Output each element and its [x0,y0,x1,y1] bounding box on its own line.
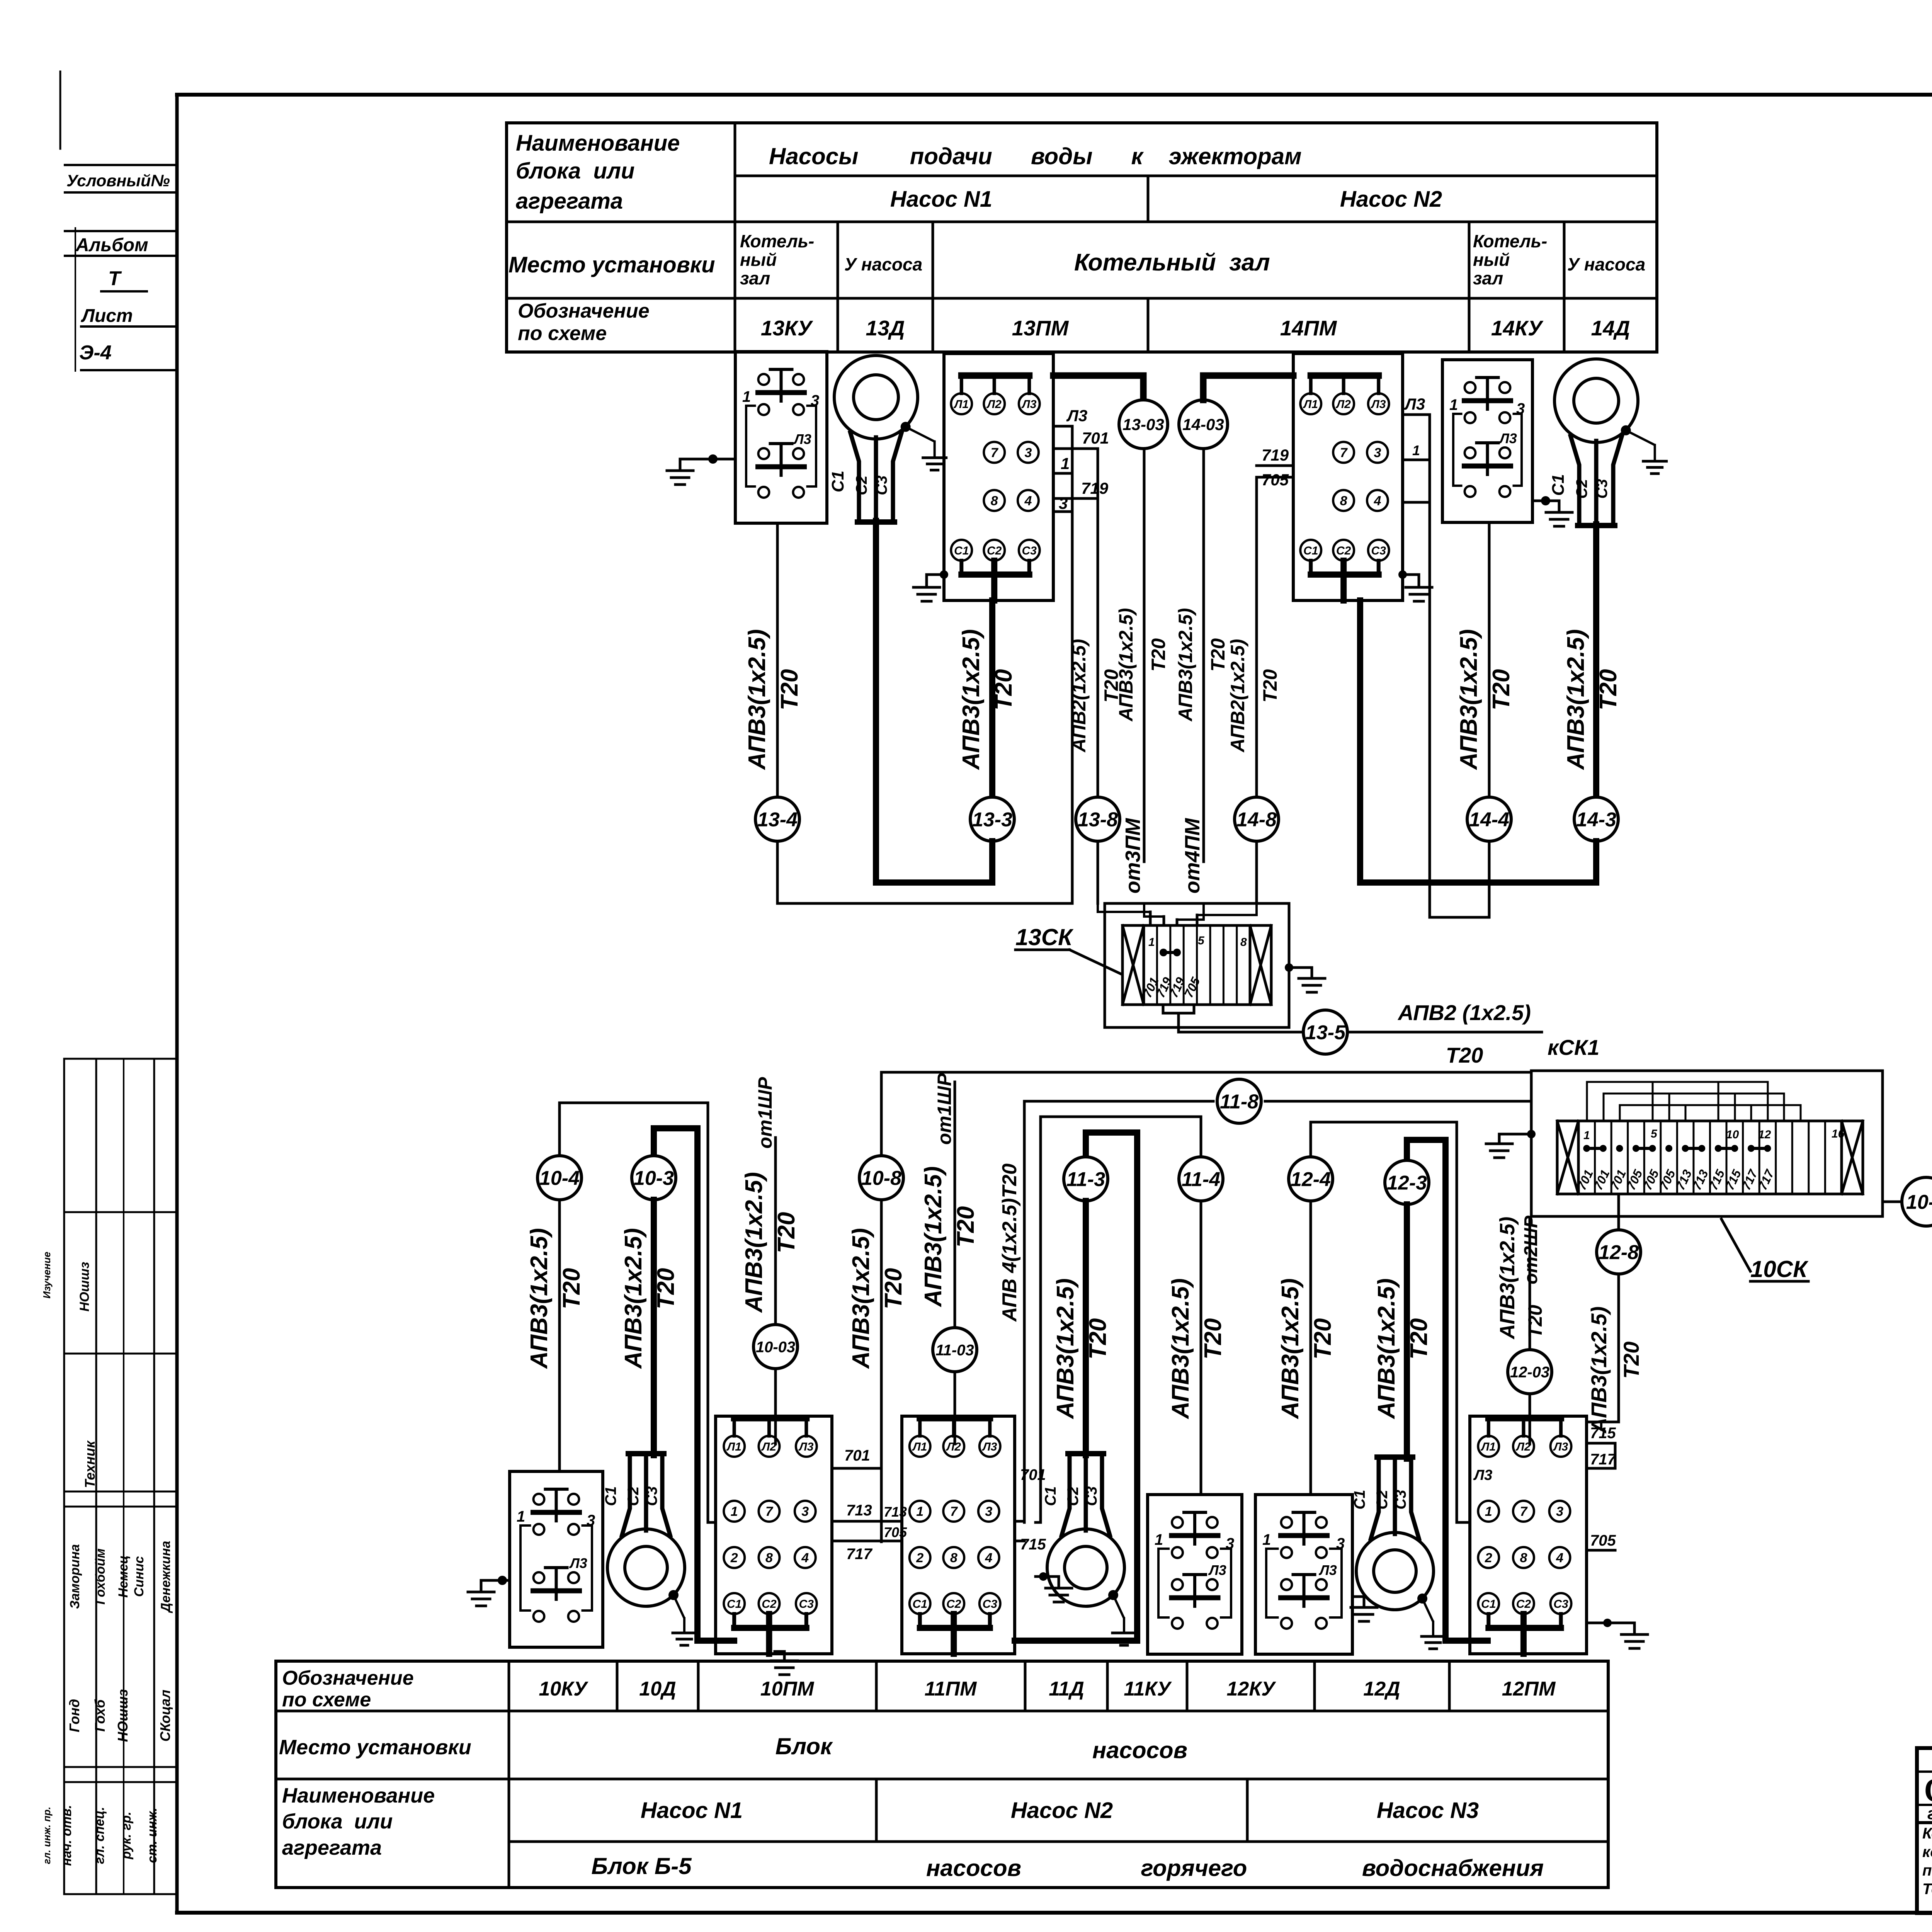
svg-text:1: 1 [1412,442,1420,458]
svg-text:С1: С1 [954,544,969,557]
svg-text:АПВ 4(1х2.5)Т20: АПВ 4(1х2.5)Т20 [998,1163,1021,1322]
svg-text:Л3: Л3 [1208,1562,1226,1578]
svg-text:АПВ2(1х2.5): АПВ2(1х2.5) [1068,639,1090,753]
svg-text:10-4: 10-4 [539,1167,580,1190]
svg-text:Л1: Л1 [1303,398,1318,411]
svg-text:701: 701 [844,1447,870,1464]
svg-text:АПВ3(1х2.5): АПВ3(1х2.5) [958,629,985,770]
svg-text:АПВ3(1х2.5): АПВ3(1х2.5) [848,1228,874,1369]
svg-text:АПВ2(1х2.5): АПВ2(1х2.5) [1227,639,1248,753]
svg-text:С3: С3 [643,1486,660,1506]
svg-text:насосов: насосов [926,1855,1021,1881]
svg-text:11Д: 11Д [1049,1678,1084,1700]
svg-text:3: 3 [801,1504,809,1519]
svg-text:Обозначение: Обозначение [282,1667,414,1689]
svg-text:Наименование: Наименование [516,131,680,156]
svg-text:САНТЕХПРОЕКТ: САНТЕХПРОЕКТ [1924,1772,1932,1809]
svg-text:13-03: 13-03 [1122,415,1164,434]
svg-text:С1: С1 [1549,474,1568,496]
svg-text:Т20: Т20 [558,1268,585,1310]
svg-text:715: 715 [1590,1425,1616,1442]
svg-text:Насос N2: Насос N2 [1011,1798,1113,1823]
svg-text:С1: С1 [602,1486,619,1506]
svg-text:Л3: Л3 [1066,406,1087,425]
svg-text:11КУ: 11КУ [1124,1678,1172,1700]
svg-text:11-4: 11-4 [1182,1168,1220,1191]
svg-text:ст. инж.: ст. инж. [145,1808,160,1863]
svg-text:10: 10 [1726,1128,1739,1141]
svg-text:Т: Т [108,267,122,290]
svg-text:С3: С3 [1392,1490,1409,1509]
svg-text:Немец: Немец [116,1555,131,1598]
svg-text:АПВ3(1х2.5): АПВ3(1х2.5) [1587,1306,1611,1434]
svg-text:С3: С3 [1553,1598,1568,1611]
svg-text:4: 4 [985,1551,992,1565]
svg-text:горячего: горячего [1141,1855,1247,1881]
svg-text:Место установки: Место установки [279,1736,471,1759]
svg-text:С3: С3 [1371,544,1386,557]
svg-text:3: 3 [1024,446,1032,460]
svg-text:Л3: Л3 [1371,398,1386,411]
svg-text:Котельная с 4 водогрейными: Котельная с 4 водогрейными [1922,1825,1932,1842]
svg-text:по схеме: по схеме [282,1689,371,1711]
svg-text:АПВ3(1х2.5): АПВ3(1х2.5) [1115,608,1137,722]
svg-text:Л1: Л1 [954,398,969,411]
svg-text:705: 705 [884,1524,907,1540]
svg-text:С3: С3 [983,1598,998,1611]
svg-text:13-4: 13-4 [757,809,798,831]
svg-text:5: 5 [1198,934,1205,947]
svg-text:Альбом: Альбом [75,235,148,255]
svg-text:Насосы подачи воды: Насосы подачи воды к эжекторам [769,143,1302,169]
svg-text:14-4: 14-4 [1469,809,1509,831]
svg-text:1: 1 [1061,454,1070,473]
svg-text:С2: С2 [762,1598,777,1611]
svg-text:Л3: Л3 [1498,430,1517,446]
svg-text:7: 7 [991,446,999,460]
svg-text:Насос N3: Насос N3 [1377,1798,1479,1823]
svg-text:от4ПМ: от4ПМ [1181,818,1204,894]
svg-text:701: 701 [1082,429,1109,447]
svg-text:13ПМ: 13ПМ [1012,316,1069,340]
svg-text:Блок Б-5: Блок Б-5 [591,1853,692,1879]
svg-text:гл. инж. пр.: гл. инж. пр. [41,1807,53,1864]
svg-text:705: 705 [1590,1532,1616,1549]
svg-text:НОшшз: НОшшз [77,1262,92,1312]
svg-text:С2: С2 [1516,1598,1531,1611]
svg-text:С2: С2 [1065,1486,1082,1506]
svg-text:Лист: Лист [81,306,133,326]
svg-text:С1: С1 [727,1598,742,1611]
svg-text:12-3: 12-3 [1387,1172,1427,1194]
svg-text:1: 1 [1155,1531,1163,1548]
svg-text:от3ПМ: от3ПМ [1121,818,1145,894]
svg-text:Условный№: Условный№ [66,172,170,190]
svg-text:13КУ: 13КУ [761,316,813,340]
svg-text:Заморина: Заморина [68,1544,82,1609]
svg-text:блока или: блока или [516,158,634,184]
svg-text:Т20: Т20 [776,669,803,711]
svg-text:Л3: Л3 [1553,1440,1568,1453]
svg-text:713: 713 [884,1504,907,1520]
svg-text:1: 1 [1148,936,1155,949]
svg-text:Гохбойм: Гохбойм [93,1548,108,1604]
svg-text:по схеме: по схеме [518,322,607,345]
svg-text:Э-4: Э-4 [79,342,112,364]
svg-text:5: 5 [1651,1128,1658,1140]
svg-text:Т20: Т20 [1619,1342,1643,1379]
svg-text:11-03: 11-03 [935,1342,974,1359]
svg-text:Котельный зал: Котельный зал [1074,249,1270,276]
svg-text:СКоцал: СКоцал [157,1690,173,1742]
svg-text:С3: С3 [1083,1486,1100,1506]
svg-text:Денежкина: Денежкина [158,1541,173,1614]
svg-text:Л3: Л3 [1404,395,1425,413]
svg-text:АПВ3(1х2.5): АПВ3(1х2.5) [526,1228,553,1369]
svg-text:Топливо-печное бытовое.: Топливо-печное бытовое. [1922,1881,1932,1898]
svg-text:719: 719 [1262,446,1289,464]
svg-text:С1: С1 [1481,1598,1496,1611]
svg-text:13-5: 13-5 [1305,1022,1346,1044]
svg-text:С3: С3 [799,1598,814,1611]
svg-text:10СК: 10СК [1750,1256,1809,1282]
svg-text:Т20: Т20 [952,1206,979,1248]
svg-text:Насос N1: Насос N1 [890,187,992,212]
svg-text:1: 1 [1485,1504,1492,1519]
svg-text:10-5: 10-5 [1906,1191,1932,1214]
svg-text:1: 1 [517,1508,525,1525]
svg-text:Котель-: Котель- [740,231,814,251]
svg-text:16: 16 [1832,1128,1845,1140]
svg-text:14-03: 14-03 [1182,415,1224,434]
svg-text:Л3: Л3 [1473,1467,1492,1483]
svg-text:Т20: Т20 [1207,638,1229,672]
svg-text:Т20: Т20 [1446,1043,1483,1067]
svg-text:8: 8 [950,1551,957,1565]
svg-text:Обозначение: Обозначение [518,300,650,322]
svg-text:13-3: 13-3 [972,809,1012,831]
svg-text:12ПМ: 12ПМ [1502,1678,1556,1700]
svg-text:Л2: Л2 [986,398,1002,411]
svg-text:Техник: Техник [82,1440,98,1488]
svg-text:10Д: 10Д [639,1678,676,1700]
svg-text:1: 1 [742,388,751,405]
svg-text:Л3: Л3 [1021,398,1037,411]
svg-text:С1: С1 [1042,1486,1059,1506]
svg-text:Т20: Т20 [1310,1318,1336,1360]
svg-text:1: 1 [916,1504,923,1519]
svg-text:3: 3 [811,392,819,409]
svg-text:13-8: 13-8 [1078,809,1118,831]
svg-text:С3: С3 [873,475,890,495]
svg-text:3: 3 [985,1504,992,1519]
svg-text:4: 4 [1373,493,1381,508]
svg-text:12Д: 12Д [1363,1678,1400,1700]
svg-text:АПВ3(1х2.5): АПВ3(1х2.5) [741,1172,767,1313]
svg-text:АПВ3(1х2.5): АПВ3(1х2.5) [1175,608,1196,722]
svg-text:ный: ный [740,250,777,270]
svg-text:С1: С1 [828,471,847,492]
svg-text:АПВ3(1х2.5): АПВ3(1х2.5) [1456,629,1482,770]
svg-text:АПВ3(1х2.5): АПВ3(1х2.5) [1277,1278,1304,1420]
svg-text:8: 8 [765,1551,773,1565]
svg-text:Л3: Л3 [798,1440,814,1453]
svg-text:14Д: 14Д [1591,316,1630,340]
svg-text:4: 4 [1556,1551,1563,1565]
svg-text:717: 717 [1590,1451,1616,1468]
svg-text:С2: С2 [1336,544,1351,557]
svg-text:Т20: Т20 [1259,669,1281,702]
svg-text:поверхностью нагрева по 41.8м²: поверхностью нагрева по 41.8м² [1922,1862,1932,1879]
svg-text:АПВ3(1х2.5): АПВ3(1х2.5) [1496,1217,1519,1340]
svg-text:АПВ3(1х2.5): АПВ3(1х2.5) [1052,1278,1079,1420]
svg-text:Насос N2: Насос N2 [1340,187,1442,212]
svg-text:Т20: Т20 [1488,669,1515,711]
svg-text:зал: зал [740,268,770,288]
svg-text:3: 3 [1374,446,1381,460]
svg-text:713: 713 [846,1502,872,1519]
svg-text:1: 1 [1449,396,1458,413]
svg-text:Место установки: Место установки [509,252,715,277]
svg-text:Л3: Л3 [1318,1562,1337,1578]
svg-text:АПВ3(1х2.5): АПВ3(1х2.5) [620,1228,647,1369]
svg-text:ный: ный [1473,250,1510,270]
svg-text:Л3: Л3 [793,431,811,447]
svg-text:С2: С2 [1374,1490,1391,1509]
svg-text:Т20: Т20 [1406,1318,1432,1360]
svg-text:715: 715 [1020,1536,1046,1553]
svg-text:С2: С2 [946,1598,961,1611]
svg-text:Л2: Л2 [946,1440,961,1453]
svg-text:1: 1 [731,1504,738,1519]
svg-text:3: 3 [1516,400,1525,417]
svg-text:Т20: Т20 [1200,1318,1226,1360]
svg-text:7: 7 [1340,446,1348,460]
svg-text:Т20: Т20 [990,669,1017,711]
svg-text:Т20: Т20 [1085,1318,1111,1360]
svg-text:С3: С3 [1022,544,1037,557]
svg-text:8: 8 [1240,936,1247,949]
svg-text:АПВ3(1х2.5): АПВ3(1х2.5) [920,1166,947,1308]
svg-text:Л1: Л1 [1481,1440,1496,1453]
svg-text:11ПМ: 11ПМ [925,1678,977,1700]
svg-text:г. Москва: г. Москва [1927,1804,1932,1823]
svg-text:1: 1 [1262,1531,1271,1548]
svg-text:Т20: Т20 [1524,1305,1546,1338]
svg-text:10-03: 10-03 [756,1338,795,1355]
svg-text:Блок: Блок [776,1733,833,1759]
svg-text:717: 717 [846,1546,872,1563]
svg-text:зал: зал [1473,268,1503,288]
svg-text:рук. гр.: рук. гр. [119,1811,134,1859]
svg-text:Л1: Л1 [912,1440,927,1453]
svg-text:Т20: Т20 [653,1268,679,1310]
svg-text:агрегата: агрегата [516,189,623,214]
svg-text:Т20: Т20 [1595,669,1622,711]
svg-text:от1ШР: от1ШР [934,1073,955,1145]
svg-text:Л3: Л3 [569,1555,587,1571]
svg-text:агрегата: агрегата [282,1836,382,1859]
svg-text:4: 4 [801,1551,809,1565]
svg-text:У насоса: У насоса [844,254,922,274]
svg-text:10ПМ: 10ПМ [760,1678,815,1700]
svg-text:2: 2 [916,1551,923,1565]
svg-text:7: 7 [765,1504,774,1519]
svg-text:водоснабжения: водоснабжения [1362,1855,1544,1881]
svg-text:котлами „Универсал-6м": котлами „Универсал-6м" [1922,1844,1932,1861]
svg-text:10-3: 10-3 [634,1167,674,1190]
svg-text:блока или: блока или [282,1810,393,1833]
svg-text:Т20: Т20 [1148,638,1169,672]
svg-text:АПВ3(1х2.5): АПВ3(1х2.5) [1563,629,1589,770]
svg-text:701: 701 [1020,1466,1046,1483]
svg-text:705: 705 [1262,471,1289,489]
svg-text:8: 8 [1520,1551,1527,1565]
svg-text:3: 3 [1226,1535,1234,1552]
svg-text:С1: С1 [1351,1490,1368,1509]
svg-text:3: 3 [1059,494,1068,512]
svg-text:С3: С3 [1594,479,1611,498]
svg-text:10-8: 10-8 [861,1167,901,1190]
svg-text:14КУ: 14КУ [1491,316,1544,340]
svg-text:гл. спец.: гл. спец. [92,1807,107,1864]
svg-text:Насос N1: Насос N1 [641,1798,743,1823]
svg-text:У насоса: У насоса [1567,254,1645,274]
svg-text:Гохб: Гохб [92,1699,108,1732]
svg-text:НОшшз: НОшшз [115,1689,131,1742]
svg-text:2: 2 [1485,1551,1492,1565]
svg-text:Т20: Т20 [880,1268,907,1310]
svg-text:Котель-: Котель- [1473,231,1547,251]
svg-text:Л1: Л1 [726,1440,742,1453]
svg-text:С1: С1 [1303,544,1318,557]
svg-text:13СК: 13СК [1015,924,1074,950]
svg-text:11-8: 11-8 [1220,1091,1259,1113]
svg-text:Изучение: Изучение [41,1252,53,1298]
svg-text:12-8: 12-8 [1599,1242,1639,1264]
svg-text:Л2: Л2 [761,1440,777,1453]
svg-text:12КУ: 12КУ [1226,1678,1276,1700]
svg-text:Т20: Т20 [773,1212,800,1253]
svg-text:8: 8 [991,493,998,508]
svg-text:14-8: 14-8 [1236,809,1277,831]
svg-text:3: 3 [1336,1535,1345,1552]
svg-text:Гонд: Гонд [66,1699,82,1732]
svg-text:кСК1: кСК1 [1548,1035,1599,1060]
svg-text:12-4: 12-4 [1291,1168,1331,1191]
svg-text:от2ШР: от2ШР [1521,1215,1541,1284]
svg-text:14ПМ: 14ПМ [1280,316,1337,340]
svg-text:АПВ3(1х2.5): АПВ3(1х2.5) [744,629,770,770]
svg-text:С2: С2 [987,544,1002,557]
svg-text:3: 3 [1556,1504,1563,1519]
svg-text:12-03: 12-03 [1510,1364,1549,1381]
svg-text:нач. отв.: нач. отв. [60,1805,74,1866]
svg-text:4: 4 [1024,493,1032,508]
svg-text:С1: С1 [913,1598,927,1611]
svg-text:Синис: Синис [132,1556,146,1597]
svg-text:1: 1 [1583,1129,1590,1142]
svg-text:10КУ: 10КУ [539,1678,588,1700]
svg-text:14-3: 14-3 [1576,809,1616,831]
svg-text:8: 8 [1340,493,1347,508]
svg-text:АПВ3(1х2.5): АПВ3(1х2.5) [1167,1278,1194,1420]
svg-text:от1ШР: от1ШР [754,1077,776,1149]
svg-text:7: 7 [950,1504,958,1519]
svg-text:АПВ2 (1х2.5): АПВ2 (1х2.5) [1397,1000,1531,1025]
svg-text:С2: С2 [1573,479,1590,498]
svg-text:Л3: Л3 [982,1440,997,1453]
svg-text:11-3: 11-3 [1066,1168,1105,1191]
svg-text:АПВ3(1х2.5): АПВ3(1х2.5) [1373,1278,1400,1420]
svg-text:719: 719 [1081,479,1109,497]
svg-text:насосов: насосов [1092,1737,1187,1763]
svg-text:12: 12 [1758,1128,1771,1141]
svg-text:С2: С2 [625,1486,642,1506]
svg-text:Л2: Л2 [1336,398,1351,411]
svg-text:13Д: 13Д [866,316,905,340]
svg-text:3: 3 [587,1512,595,1529]
svg-text:Наименование: Наименование [282,1784,435,1807]
svg-text:2: 2 [730,1551,738,1565]
svg-text:7: 7 [1520,1504,1528,1519]
svg-text:С2: С2 [853,475,870,495]
